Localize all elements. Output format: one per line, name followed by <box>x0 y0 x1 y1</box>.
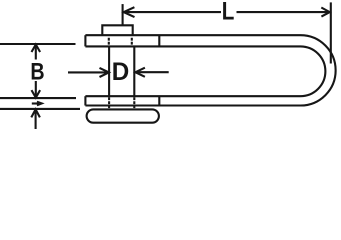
svg-text:L: L <box>222 0 235 26</box>
svg-text:B: B <box>30 59 44 86</box>
svg-text:D: D <box>112 58 130 86</box>
